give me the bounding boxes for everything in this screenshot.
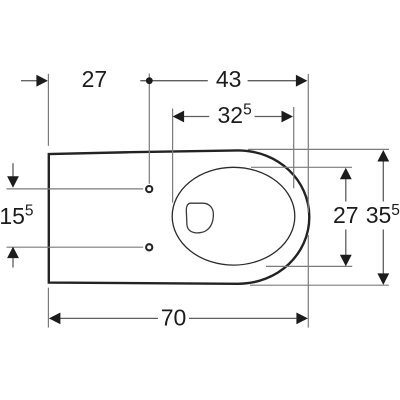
dim 27 right line: [345, 179, 347, 202]
arrow 15.5 down: [7, 176, 19, 188]
dim 43 line: [140, 80, 208, 82]
svg-text:43: 43: [216, 66, 242, 92]
fixing holes: [146, 186, 152, 192]
arrowheads and dot: [7, 75, 389, 324]
bowl rim ellipse: [172, 167, 295, 265]
ext: body top to right: [248, 148, 389, 150]
ext: hole1 to left: [7, 188, 144, 190]
dim 32.5 line: [184, 116, 209, 118]
ext: hole2 to left: [7, 246, 144, 248]
dot holes centerline: [146, 77, 153, 84]
svg-text:27: 27: [82, 66, 108, 92]
arrow 35.5 bottom: [377, 273, 389, 285]
ext: body left edge down: [47, 288, 49, 328]
svg-text:355: 355: [366, 202, 400, 228]
ext: holes centerline up: [148, 74, 150, 184]
dim 27 top: outside lead-in: [21, 80, 37, 82]
dim 35.5 line: [382, 162, 384, 202]
dim 15.5 line: [12, 163, 14, 177]
arrow 27 right bottom: [340, 255, 352, 266]
ext: body left edge up: [47, 74, 49, 146]
dimension lines (dark): [13, 81, 383, 319]
arrow 27 right top: [340, 168, 352, 180]
arrow 70 right: [296, 313, 308, 325]
arrow 32.5 left: [173, 111, 185, 123]
arrow 70 left: [49, 313, 61, 325]
arrow 32.5 right: [282, 111, 294, 123]
ext: body bottom to right: [250, 284, 389, 286]
arrow 27 top: [36, 75, 48, 87]
extension lines (gray): [7, 74, 390, 328]
ext: front extreme lower: [307, 235, 309, 328]
svg-text:155: 155: [0, 203, 34, 230]
dim 70 line: [60, 317, 158, 319]
ext: front extreme upper: [307, 74, 309, 213]
svg-text:70: 70: [161, 305, 187, 331]
svg-text:325: 325: [218, 102, 252, 129]
trapway blob: [186, 203, 213, 233]
ext: bowl top to right: [251, 166, 352, 168]
arrow 15.5 up: [7, 247, 19, 259]
ext: bowl right: [293, 107, 295, 188]
arrow 43: [296, 75, 308, 87]
wc body outline: [49, 150, 310, 283]
ext: bowl left: [172, 109, 174, 203]
ext: bowl bottom to right: [266, 265, 352, 267]
arrow 35.5 top: [377, 150, 389, 162]
svg-text:27: 27: [333, 202, 359, 228]
